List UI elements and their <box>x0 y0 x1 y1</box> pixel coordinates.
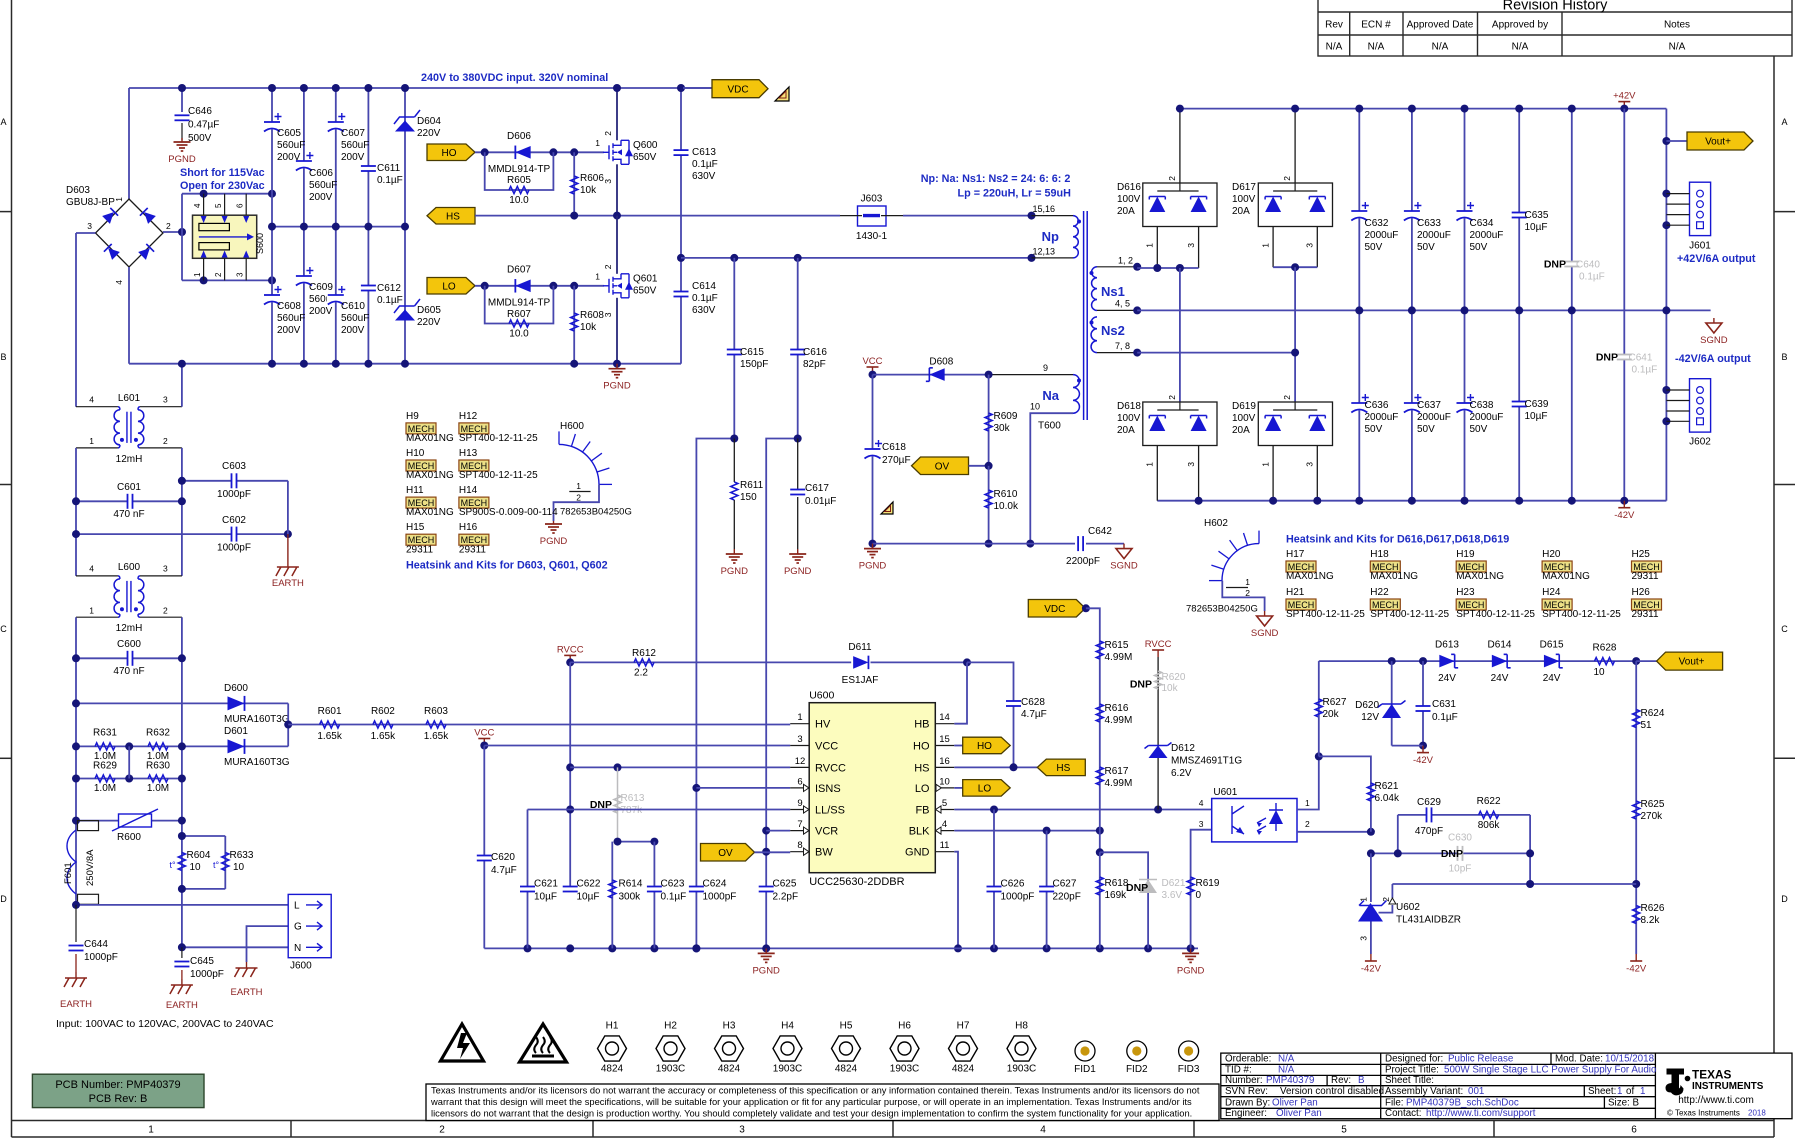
capacitor C618 <box>872 375 874 544</box>
svg-text:29311: 29311 <box>406 544 434 555</box>
svg-text:F601: F601 <box>63 862 74 884</box>
svg-text:warrant that this design will: warrant that this design will meet the s… <box>430 1097 1192 1107</box>
svg-text:200V: 200V <box>277 325 301 336</box>
svg-text:H16: H16 <box>459 522 478 533</box>
svg-text:0.1µF: 0.1µF <box>377 295 403 306</box>
svg-text:MAX01NG: MAX01NG <box>406 433 454 444</box>
svg-text:R625: R625 <box>1641 799 1665 810</box>
svg-text:1903C: 1903C <box>890 1064 919 1075</box>
bridge rectifier D603 <box>96 199 164 267</box>
varistor R600 <box>76 820 182 822</box>
svg-text:R605: R605 <box>507 175 531 186</box>
svg-text:1000pF: 1000pF <box>217 543 251 554</box>
svg-text:C630: C630 <box>1448 833 1472 844</box>
disclaimer text box <box>426 1084 1219 1121</box>
svg-text:10.0k: 10.0k <box>994 501 1019 512</box>
wire aux ground rail <box>873 543 1076 545</box>
net flag HO <box>427 144 475 161</box>
wire HV feed resistors <box>288 724 790 726</box>
capacitor C638 <box>1456 403 1474 411</box>
svg-text:10/15/2018: 10/15/2018 <box>1605 1054 1655 1065</box>
wire Ns1 top to D616 <box>1137 267 1198 269</box>
U600 pin VCR <box>790 830 809 832</box>
svg-text:C626: C626 <box>1001 879 1025 890</box>
svg-text:C628: C628 <box>1021 697 1045 708</box>
svg-text:16: 16 <box>939 756 950 767</box>
svg-text:0.1µF: 0.1µF <box>661 892 687 903</box>
svg-text:1: 1 <box>148 1125 154 1136</box>
power port -42V below rail <box>1623 501 1625 508</box>
resistor R611 <box>733 439 735 483</box>
svg-text:Heatsink and Kits for D616,D61: Heatsink and Kits for D616,D617,D618,D61… <box>1286 534 1509 546</box>
svg-text:3: 3 <box>1199 819 1204 829</box>
svg-text:R619: R619 <box>1196 878 1220 889</box>
svg-text:1.65k: 1.65k <box>371 731 396 742</box>
svg-text:2: 2 <box>1167 395 1177 400</box>
svg-text:14: 14 <box>939 712 950 723</box>
capacitor C611 <box>360 166 377 171</box>
svg-text:VDC: VDC <box>727 84 748 95</box>
svg-text:DNP: DNP <box>1130 679 1152 691</box>
svg-text:1: 1 <box>1245 577 1250 587</box>
svg-text:R621: R621 <box>1375 781 1399 792</box>
svg-text:SPT400-12-11-25: SPT400-12-11-25 <box>1542 609 1621 620</box>
wire control PGND rail <box>484 947 1198 949</box>
svg-text:1000pF: 1000pF <box>703 892 737 903</box>
svg-text:Size: B: Size: B <box>1608 1097 1640 1108</box>
svg-text:15,16: 15,16 <box>1032 204 1055 214</box>
wire mid rail <box>272 226 405 228</box>
svg-text:C: C <box>1781 624 1788 634</box>
svg-text:N/A: N/A <box>1326 42 1343 53</box>
svg-text:20A: 20A <box>1117 206 1135 217</box>
svg-text:0.47µF: 0.47µF <box>188 120 219 131</box>
svg-text:MURA160T3G: MURA160T3G <box>224 757 290 768</box>
svg-text:H18: H18 <box>1370 549 1389 560</box>
ground PGND control rail 1 <box>765 948 767 953</box>
fiducial FID2 <box>1127 1041 1147 1061</box>
svg-text:Na: Na <box>1042 388 1059 403</box>
svg-text:Short for 115Vac: Short for 115Vac <box>180 167 265 179</box>
svg-text:2000uF: 2000uF <box>1417 412 1451 423</box>
svg-text:VCR: VCR <box>815 826 838 838</box>
fiducial FID3 <box>1179 1041 1199 1061</box>
svg-text:J602: J602 <box>1689 437 1711 448</box>
resistor R620 DNP <box>1155 671 1162 689</box>
capacitor C608 <box>263 295 281 303</box>
resistor R607 bypass <box>485 286 554 324</box>
svg-text:1: 1 <box>1617 1086 1622 1097</box>
svg-text:R622: R622 <box>1477 796 1501 807</box>
svg-text:3: 3 <box>87 221 92 231</box>
svg-text:R626: R626 <box>1641 903 1665 914</box>
svg-text:D601: D601 <box>224 726 248 737</box>
svg-text:Oliver Pan: Oliver Pan <box>1272 1097 1318 1108</box>
optocoupler U601 <box>1212 799 1297 842</box>
wire RVCC pin row <box>570 766 790 768</box>
svg-text:C636: C636 <box>1365 400 1389 411</box>
power port -42V under C631 <box>1422 746 1424 753</box>
standoff H7 <box>949 1036 978 1061</box>
svg-text:L: L <box>294 900 300 911</box>
svg-text:4824: 4824 <box>718 1064 741 1075</box>
svg-text:TL431AIDBZR: TL431AIDBZR <box>1396 915 1461 926</box>
capacitor C625 <box>758 887 775 892</box>
standoff H1 <box>598 1036 627 1061</box>
svg-text:782653B04250G: 782653B04250G <box>560 507 632 518</box>
svg-text:PGND: PGND <box>1177 965 1205 976</box>
svg-text:VCC: VCC <box>862 356 882 367</box>
wire 7-8 rail <box>1137 352 1295 354</box>
svg-text:200V: 200V <box>341 152 365 163</box>
svg-text:C631: C631 <box>1432 699 1456 710</box>
svg-text:51: 51 <box>1641 720 1653 731</box>
svg-text:9: 9 <box>1043 363 1048 373</box>
svg-text:MAX01NG: MAX01NG <box>1542 571 1590 582</box>
svg-text:24V: 24V <box>1438 673 1456 684</box>
wire D617 center to D619 <box>1294 267 1296 402</box>
svg-text:220V: 220V <box>417 128 441 139</box>
svg-text:1: 1 <box>595 138 600 148</box>
TI logo <box>1666 1069 1691 1096</box>
resistor R604 <box>182 835 225 837</box>
svg-text:-42V: -42V <box>1361 964 1382 975</box>
svg-text:SPT400-12-11-25: SPT400-12-11-25 <box>1456 609 1535 620</box>
svg-text:10: 10 <box>1030 402 1040 412</box>
svg-text:0.01µF: 0.01µF <box>805 496 836 507</box>
svg-text:R609: R609 <box>994 411 1018 422</box>
svg-text:R612: R612 <box>632 648 656 659</box>
zener D620 <box>1391 661 1393 746</box>
U600 pin HO <box>935 745 954 747</box>
svg-text:150pF: 150pF <box>740 359 768 370</box>
svg-text:Approved Date: Approved Date <box>1407 20 1474 31</box>
svg-text:Contact:: Contact: <box>1385 1108 1422 1119</box>
svg-text:Version control disabled: Version control disabled <box>1280 1086 1384 1097</box>
svg-text:HO: HO <box>442 148 457 159</box>
zener D608 <box>929 368 944 381</box>
svg-text:12,13: 12,13 <box>1032 247 1055 257</box>
wire Na pin10 to PGND rail <box>1030 413 1073 543</box>
svg-text:EARTH: EARTH <box>230 987 262 998</box>
svg-text:1: 1 <box>1261 243 1271 248</box>
svg-text:N: N <box>294 943 301 954</box>
svg-text:N/A: N/A <box>1278 1054 1295 1065</box>
svg-text:DNP: DNP <box>1596 352 1618 364</box>
capacitor C616 <box>797 258 799 439</box>
svg-text:HV: HV <box>815 719 831 731</box>
transformer aux winding Na <box>989 374 1073 376</box>
capacitor C633 <box>1403 211 1421 219</box>
svg-text:C641: C641 <box>1629 353 1653 364</box>
svg-text:R628: R628 <box>1593 643 1617 654</box>
svg-text:2000uF: 2000uF <box>1470 412 1504 423</box>
svg-text:R630: R630 <box>146 761 170 772</box>
svg-text:10µF: 10µF <box>1525 222 1548 233</box>
svg-text:N/A: N/A <box>1669 42 1686 53</box>
svg-text:C624: C624 <box>703 879 727 890</box>
svg-text:EARTH: EARTH <box>166 1000 198 1011</box>
net flag Vout+ output <box>1666 140 1687 142</box>
ground PGND under C646 <box>181 138 183 142</box>
svg-text:8: 8 <box>797 840 802 851</box>
wire HO to gate <box>475 151 604 153</box>
capacitor C623 <box>653 842 655 949</box>
svg-text:1.0M: 1.0M <box>147 783 169 794</box>
svg-text:30k: 30k <box>994 423 1011 434</box>
svg-text:PMP40379B_sch.SchDoc: PMP40379B_sch.SchDoc <box>1406 1097 1519 1108</box>
svg-text:PCB Rev: B: PCB Rev: B <box>89 1093 148 1105</box>
svg-text:470 nF: 470 nF <box>113 509 144 520</box>
svg-text:D621: D621 <box>1162 878 1186 889</box>
ground PGND control rail 2 <box>1190 948 1192 953</box>
svg-text:2: 2 <box>1282 176 1292 181</box>
wire primary lower rail <box>681 257 1032 259</box>
svg-text:HS: HS <box>446 211 460 222</box>
wire bridge top to bus <box>128 88 130 199</box>
MOSFET Q600 <box>603 140 633 164</box>
svg-text:N/A: N/A <box>1432 42 1449 53</box>
svg-text:R615: R615 <box>1105 640 1129 651</box>
svg-text:10µF: 10µF <box>534 892 557 903</box>
diode D607 <box>515 280 530 293</box>
svg-text:29311: 29311 <box>1632 609 1660 620</box>
svg-text:20A: 20A <box>1232 425 1250 436</box>
warning icon small 2 <box>881 502 893 514</box>
svg-text:3: 3 <box>1359 936 1369 941</box>
U600 pin LL/SS <box>790 809 809 811</box>
svg-text:1: 1 <box>1145 243 1155 248</box>
svg-text:H600: H600 <box>560 421 584 432</box>
svg-text:PGND: PGND <box>752 965 780 976</box>
svg-text:3: 3 <box>163 395 168 405</box>
wire D611 to HB <box>871 661 968 663</box>
svg-text:220V: 220V <box>417 317 441 328</box>
svg-text:RVCC: RVCC <box>557 644 584 655</box>
svg-text:R633: R633 <box>230 850 254 861</box>
svg-text:C625: C625 <box>773 879 797 890</box>
svg-text:0.1µF: 0.1µF <box>1432 712 1458 723</box>
svg-text:MMDL914-TP: MMDL914-TP <box>488 298 551 309</box>
svg-text:Oliver Pan: Oliver Pan <box>1276 1108 1322 1119</box>
resistor R614 <box>618 841 655 843</box>
IC U600 UCC25630 <box>809 703 935 873</box>
svg-text:H21: H21 <box>1286 587 1305 598</box>
svg-text:1, 2: 1, 2 <box>1118 256 1133 266</box>
svg-text:560uF: 560uF <box>309 180 337 191</box>
svg-text:0.1µF: 0.1µF <box>1632 365 1658 376</box>
svg-text:100V: 100V <box>1117 413 1141 424</box>
svg-text:470pF: 470pF <box>1415 826 1443 837</box>
capacitor C645 <box>181 947 183 958</box>
svg-text:C605: C605 <box>277 128 301 139</box>
wire VCR column <box>766 439 798 949</box>
transformer T600 primary Np <box>1032 215 1074 217</box>
svg-text:10: 10 <box>190 862 202 873</box>
svg-text:4.7µF: 4.7µF <box>491 865 517 876</box>
svg-text:MMDL914-TP: MMDL914-TP <box>488 164 551 175</box>
svg-text:R610: R610 <box>994 489 1018 500</box>
svg-text:Vout+: Vout+ <box>1679 657 1705 668</box>
svg-text:C609: C609 <box>309 282 333 293</box>
svg-text:T600: T600 <box>1038 421 1061 432</box>
standoff H3 <box>715 1036 744 1061</box>
svg-text:1: 1 <box>595 272 600 282</box>
svg-text:Sheet Title:: Sheet Title: <box>1385 1075 1434 1086</box>
capacitor C605 <box>263 122 281 130</box>
svg-text:9: 9 <box>797 798 802 809</box>
svg-text:D606: D606 <box>507 131 531 142</box>
svg-text:20A: 20A <box>1232 206 1250 217</box>
svg-text:3: 3 <box>1305 462 1315 467</box>
svg-text:Np: Np <box>1042 229 1059 244</box>
svg-text:470 nF: 470 nF <box>113 666 144 677</box>
svg-text:29311: 29311 <box>459 544 487 555</box>
svg-text:C615: C615 <box>740 347 764 358</box>
svg-text:1: 1 <box>1359 897 1369 902</box>
svg-text:1: 1 <box>1305 798 1310 808</box>
svg-text:H20: H20 <box>1542 549 1561 560</box>
connector J603 <box>858 206 887 226</box>
net flag HO right <box>954 745 962 747</box>
svg-text:650V: 650V <box>633 286 657 297</box>
svg-text:C640: C640 <box>1576 260 1600 271</box>
svg-text:500V: 500V <box>188 133 212 144</box>
svg-text:H15: H15 <box>406 522 425 533</box>
net flag VDC top <box>683 87 712 89</box>
svg-text:File:: File: <box>1385 1097 1404 1108</box>
svg-text:H2: H2 <box>664 1021 677 1032</box>
svg-text:11: 11 <box>940 840 950 851</box>
svg-text:+42V: +42V <box>1613 91 1636 102</box>
svg-text:10: 10 <box>939 776 950 787</box>
wire bridge pin3 to EMI filter <box>76 232 96 234</box>
svg-text:EARTH: EARTH <box>272 578 304 589</box>
fuse F601 <box>78 821 99 831</box>
wire TL431 ref row <box>1392 883 1636 885</box>
capacitor C644 <box>75 905 77 942</box>
svg-text:PGND: PGND <box>784 566 812 577</box>
svg-text:0.1µF: 0.1µF <box>692 159 718 170</box>
svg-text:4.99M: 4.99M <box>1105 652 1133 663</box>
svg-text:2: 2 <box>163 606 168 616</box>
svg-text:-42V: -42V <box>1626 964 1647 975</box>
svg-text:t°: t° <box>169 860 176 870</box>
svg-text:SPT400-12-11-25: SPT400-12-11-25 <box>1286 609 1365 620</box>
capacitor C602 <box>76 533 288 535</box>
svg-text:Sheet:: Sheet: <box>1588 1086 1616 1097</box>
U600 pin VCC <box>790 745 809 747</box>
svg-text:Project Title:: Project Title: <box>1385 1064 1439 1075</box>
svg-text:3.6V: 3.6V <box>1162 890 1183 901</box>
capacitor C635 <box>1511 213 1528 218</box>
wire D617 legs join <box>1273 266 1317 268</box>
capacitor C620 <box>483 746 485 949</box>
svg-text:D618: D618 <box>1117 401 1141 412</box>
svg-text:H26: H26 <box>1632 587 1651 598</box>
power port -42V under R626 <box>1635 954 1637 961</box>
svg-text:1903C: 1903C <box>773 1064 802 1075</box>
svg-text:630V: 630V <box>692 305 716 316</box>
svg-text:2: 2 <box>166 221 171 231</box>
capacitor C615 <box>733 258 735 439</box>
svg-text:D620: D620 <box>1355 700 1379 711</box>
svg-text:SP900S-0.009-00-114: SP900S-0.009-00-114 <box>459 507 558 518</box>
svg-text:4.99M: 4.99M <box>1105 778 1133 789</box>
svg-text:MURA160T3G: MURA160T3G <box>224 714 290 725</box>
wire R627 to R621 <box>1319 756 1371 831</box>
svg-text:240V to 380VDC input. 320V nom: 240V to 380VDC input. 320V nominal <box>421 72 608 84</box>
svg-text:Designed for:: Designed for: <box>1385 1054 1443 1065</box>
wire VCC to U600 <box>484 745 790 747</box>
svg-text:D608: D608 <box>929 357 953 368</box>
standoff H2 <box>656 1036 685 1061</box>
power port RVCC right <box>1157 650 1159 657</box>
svg-text:H12: H12 <box>459 411 478 422</box>
capacitor C612 <box>360 286 377 291</box>
svg-text:D605: D605 <box>417 305 441 316</box>
svg-text:ECN #: ECN # <box>1361 20 1391 31</box>
svg-text:3: 3 <box>1305 243 1315 248</box>
capacitor C628 <box>967 662 1014 767</box>
svg-text:SGND: SGND <box>1110 561 1138 572</box>
power port -42V under U602 <box>1370 954 1372 961</box>
wire R631 R629 mid link <box>128 746 130 778</box>
svg-text:D617: D617 <box>1232 182 1256 193</box>
svg-text:4: 4 <box>89 395 94 405</box>
net flag HS <box>427 208 475 225</box>
svg-text:Notes: Notes <box>1664 20 1690 31</box>
svg-text:SGND: SGND <box>1700 335 1728 346</box>
svg-text:H11: H11 <box>406 485 424 496</box>
svg-text:C637: C637 <box>1417 400 1441 411</box>
rectifier D619 <box>1258 402 1332 446</box>
svg-text:N/A: N/A <box>1368 42 1385 53</box>
resistor R616 <box>1096 704 1103 722</box>
svg-text:5: 5 <box>942 798 947 809</box>
svg-text:SGND: SGND <box>1251 628 1279 639</box>
wire bridge pin2 to S600 net <box>163 231 182 233</box>
svg-text:R607: R607 <box>507 309 531 320</box>
svg-text:24V: 24V <box>1543 673 1561 684</box>
capacitor C629 <box>1427 806 1432 823</box>
transformer secondary Ns1 <box>1097 266 1137 268</box>
capacitor C601 <box>76 500 182 502</box>
svg-text:6: 6 <box>797 776 802 787</box>
zener D613 <box>1439 655 1454 668</box>
capacitor C630 DNP <box>1458 845 1463 862</box>
svg-text:GND: GND <box>905 847 930 859</box>
svg-text:PGND: PGND <box>540 536 568 547</box>
svg-text:7: 7 <box>797 819 802 830</box>
ground SGND under H602 <box>1264 611 1266 616</box>
capacitor C642 <box>1078 535 1083 552</box>
svg-text:http://www.ti.com: http://www.ti.com <box>1678 1095 1754 1106</box>
svg-text:3: 3 <box>1186 462 1196 467</box>
svg-text:C646: C646 <box>188 106 212 117</box>
svg-text:4: 4 <box>89 564 94 574</box>
svg-text:200V: 200V <box>309 192 333 203</box>
svg-text:U602: U602 <box>1396 902 1420 913</box>
svg-text:560uF: 560uF <box>341 140 369 151</box>
svg-text:SVN Rev:: SVN Rev: <box>1225 1086 1268 1097</box>
svg-text:BLK: BLK <box>909 826 930 838</box>
capacitor C600 <box>76 657 182 659</box>
U600 pin BLK <box>935 830 954 832</box>
diode D601 <box>182 745 288 747</box>
svg-text:50V: 50V <box>1470 424 1488 435</box>
svg-text:Heatsink and Kits for D603, Q6: Heatsink and Kits for D603, Q601, Q602 <box>406 560 608 572</box>
